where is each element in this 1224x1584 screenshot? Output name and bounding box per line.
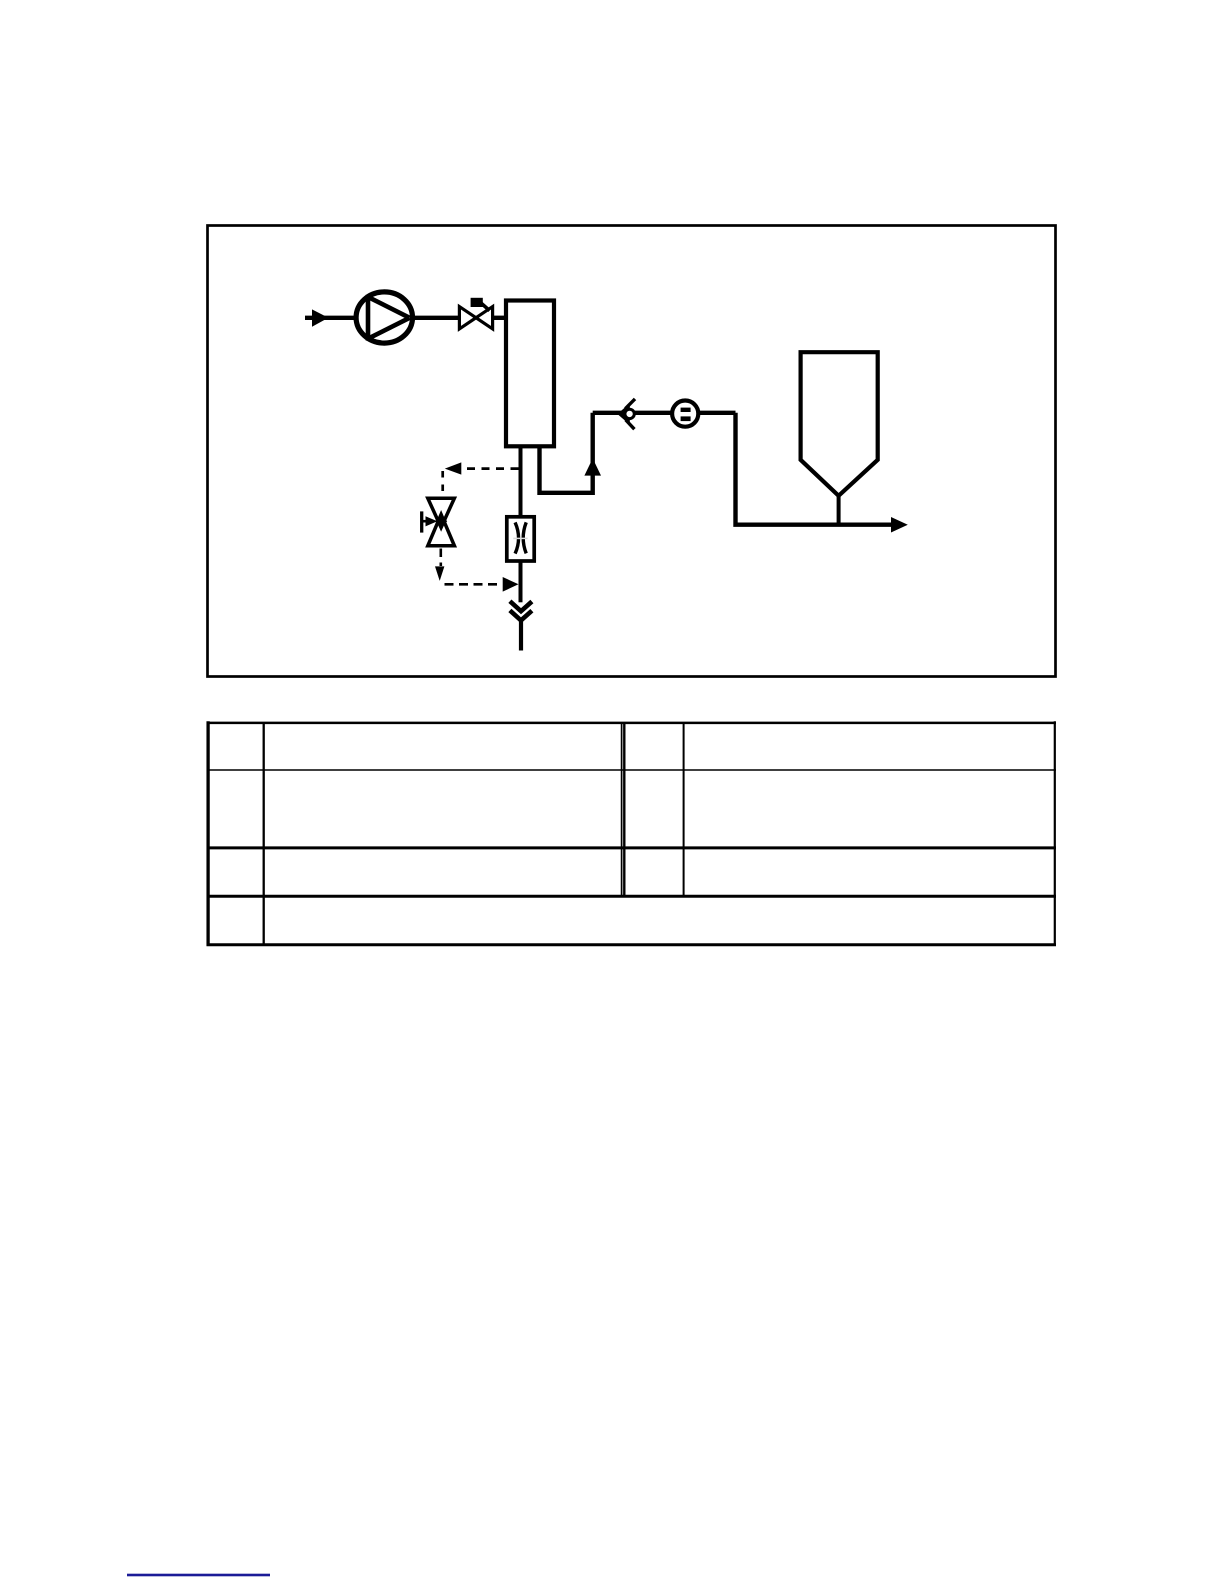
valve V1 xyxy=(459,298,492,329)
table second column divider xyxy=(683,722,685,896)
wire column right stub elbow up xyxy=(540,413,593,493)
wire inlet line xyxy=(305,316,357,320)
node right arrow xyxy=(503,577,519,592)
flow meter M1 xyxy=(672,401,698,427)
control valve V2 xyxy=(428,498,455,546)
node outlet arrow xyxy=(891,517,908,533)
wire dashed signal lower xyxy=(445,583,503,586)
wire pump to valve xyxy=(412,316,459,320)
diagram frame xyxy=(208,226,1056,677)
table row line 2 xyxy=(207,846,1057,849)
wire dashed below valve xyxy=(439,549,442,567)
wire right drop and bottom run xyxy=(736,413,892,525)
wire drain tail xyxy=(519,620,523,651)
wire top run xyxy=(593,411,736,415)
tank hopper xyxy=(801,352,878,496)
node up arrow xyxy=(584,458,601,475)
wire tank stub xyxy=(837,493,841,525)
check valve xyxy=(617,399,635,429)
table column divider xyxy=(263,722,265,944)
node down arrow xyxy=(435,566,444,581)
wire dashed signal upper xyxy=(460,467,519,470)
valve V2 handle xyxy=(422,511,438,532)
wire column left stub down xyxy=(519,446,523,515)
table outer border xyxy=(207,721,1057,946)
pump P1 xyxy=(356,292,412,343)
flow element FE xyxy=(507,517,534,561)
wire dashed signal vertical xyxy=(441,471,444,497)
table middle double divider xyxy=(622,722,625,896)
column vessel xyxy=(506,301,554,447)
footer rule xyxy=(127,1574,270,1577)
wire drop below flow element xyxy=(519,561,523,602)
drain chevrons xyxy=(510,601,532,620)
wire valve to column xyxy=(493,316,505,320)
node dashed left arrow xyxy=(445,462,462,474)
node inlet arrow xyxy=(312,309,328,326)
table row line 1 xyxy=(207,769,1057,771)
table row line 3 xyxy=(207,895,1057,898)
